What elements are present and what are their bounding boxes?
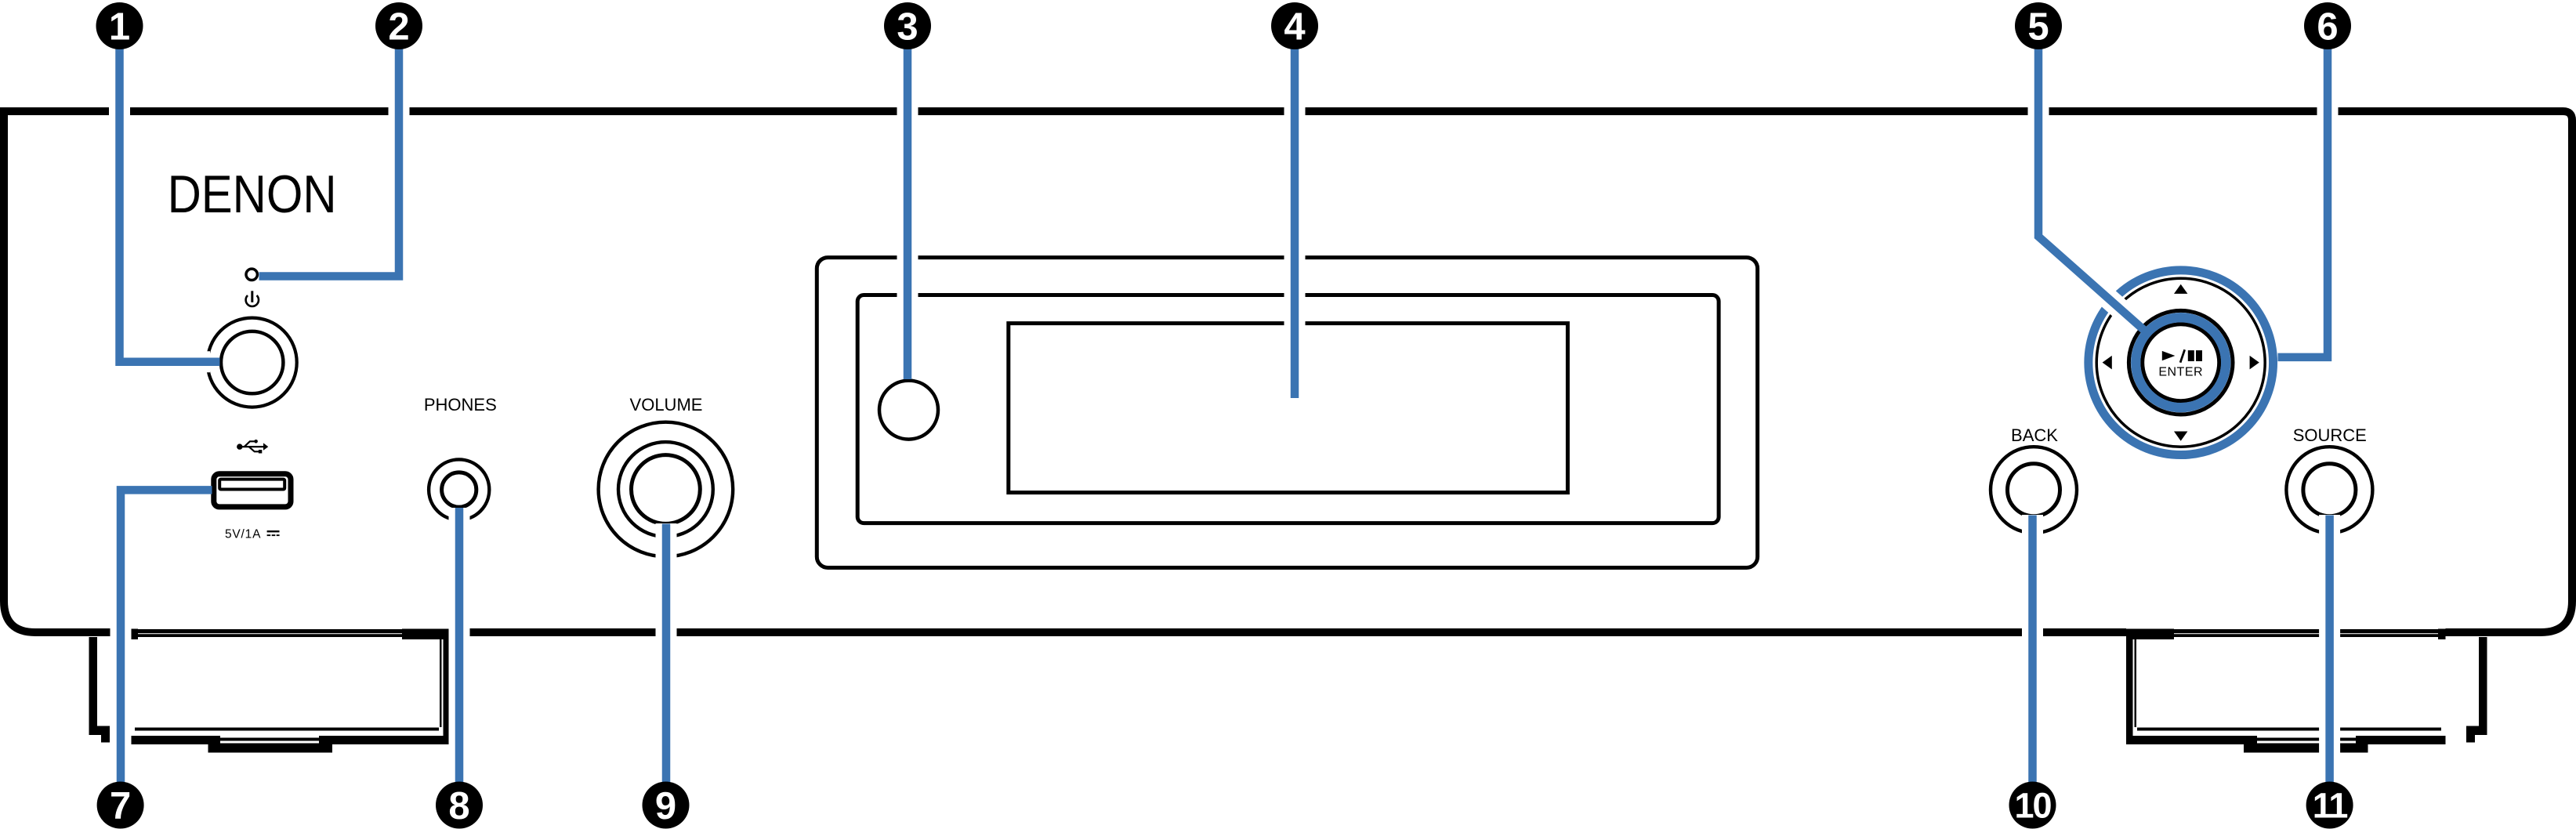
callout 2	[375, 2, 422, 49]
cursor pad outer blue ring	[2089, 270, 2273, 455]
svg-text:6: 6	[2317, 6, 2338, 49]
display window	[1009, 324, 1568, 493]
DC symbol	[267, 530, 280, 536]
cursor pad inner blue ring	[2136, 317, 2226, 407]
callout 4	[1271, 2, 1318, 49]
play/pause glyph	[2162, 349, 2202, 363]
callout 10	[2009, 782, 2056, 829]
svg-text:DENON: DENON	[168, 165, 337, 224]
left foot body	[131, 629, 451, 753]
left foot bracket	[89, 637, 111, 743]
callout 1	[96, 2, 143, 49]
svg-text:10: 10	[2014, 786, 2051, 826]
callout 8	[436, 782, 483, 829]
cursor pad black circles	[2096, 278, 2265, 447]
svg-text:SOURCE: SOURCE	[2293, 425, 2367, 445]
USB icon	[237, 440, 268, 454]
callout 7	[97, 782, 144, 829]
casing line 1	[120, 47, 211, 362]
power button	[208, 318, 297, 407]
SOURCE button	[2286, 447, 2372, 533]
BACK button	[1991, 447, 2077, 533]
white mask over bottom edge at left foot	[131, 624, 451, 640]
power standby symbol	[246, 291, 259, 306]
svg-text:5V/1A: 5V/1A	[225, 527, 261, 541]
blue line 10	[2028, 516, 2037, 784]
callout 11	[2306, 782, 2353, 829]
svg-text:8: 8	[448, 785, 469, 827]
display bezel middle	[857, 295, 1719, 523]
svg-text:4: 4	[1284, 6, 1305, 49]
casing line 6	[2288, 47, 2328, 357]
PHONES jack	[429, 459, 489, 519]
casing line 8	[449, 508, 470, 784]
right foot bracket	[2466, 637, 2487, 743]
svg-text:3: 3	[897, 6, 918, 49]
right foot body	[2126, 629, 2446, 753]
svg-text:ENTER: ENTER	[2158, 366, 2203, 379]
callout 5	[2015, 2, 2062, 49]
casing line 10	[2022, 515, 2043, 784]
svg-text:7: 7	[110, 785, 131, 827]
svg-text:11: 11	[2313, 786, 2348, 826]
casing line 4	[1284, 47, 1306, 398]
blue line 8	[455, 508, 464, 784]
callout 6	[2304, 2, 2351, 49]
remote sensor	[879, 381, 938, 440]
power LED	[246, 269, 257, 280]
casing line 11	[2319, 515, 2340, 784]
casing line 7	[121, 490, 202, 784]
svg-text:9: 9	[655, 785, 676, 827]
blue line 6	[2278, 31, 2328, 357]
display bezel outer	[817, 258, 1757, 568]
callout 9	[643, 782, 690, 829]
svg-text:5: 5	[2027, 6, 2049, 49]
svg-text:1: 1	[109, 6, 130, 49]
blue line 4	[1291, 31, 1299, 398]
blue line 2	[259, 31, 400, 277]
casing line 3	[897, 47, 918, 370]
callout 3	[884, 2, 931, 49]
blue line 1	[120, 31, 220, 362]
blue line 5	[2038, 31, 2147, 333]
svg-text:PHONES: PHONES	[424, 395, 497, 414]
blue line 9	[662, 524, 671, 784]
casing line 2	[267, 47, 399, 277]
front panel outline	[4, 111, 2572, 632]
blue line 3	[904, 31, 912, 379]
VOLUME knob	[599, 422, 734, 557]
white mask over bottom edge at right foot	[2126, 624, 2446, 640]
svg-text:VOLUME: VOLUME	[630, 395, 703, 414]
cursor pad arrows	[2103, 284, 2259, 441]
casing line 5	[2038, 47, 2136, 324]
casing line 9	[656, 523, 677, 784]
blue line 7	[121, 490, 212, 784]
svg-text:2: 2	[388, 6, 409, 49]
svg-text:BACK: BACK	[2011, 425, 2058, 445]
blue line 11	[2325, 516, 2334, 784]
USB port	[214, 474, 291, 507]
